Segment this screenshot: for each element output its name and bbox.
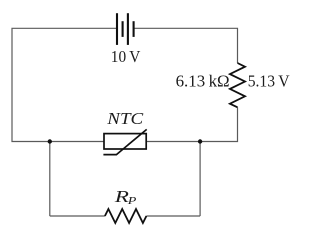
svg-text:10 V: 10 V [111,47,141,66]
svg-text:P: P [126,195,136,207]
svg-text:R: R [113,187,129,206]
svg-text:6.13 kΩ: 6.13 kΩ [176,72,230,91]
svg-text:5.13 V: 5.13 V [248,72,290,91]
svg-text:NTC: NTC [106,109,144,128]
